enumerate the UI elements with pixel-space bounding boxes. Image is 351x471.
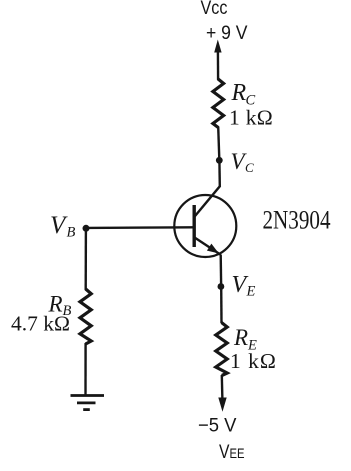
wire emitter to VE <box>219 255 222 291</box>
label RC <box>231 80 256 109</box>
wire VC to collector <box>218 160 221 187</box>
wire RE to -5V arrow <box>221 375 224 400</box>
transistor Q1 2N3904 <box>174 186 236 257</box>
svg-text:1 kΩ: 1 kΩ <box>230 349 277 373</box>
node VC <box>216 157 223 164</box>
node VE <box>218 283 225 290</box>
svg-text:R: R <box>233 325 248 350</box>
svg-text:2N3904: 2N3904 <box>263 205 331 235</box>
wire RB to ground <box>84 343 86 395</box>
svg-text:1 kΩ: 1 kΩ <box>229 106 273 130</box>
supply arrow to +9V <box>214 40 221 81</box>
label RE <box>233 325 257 354</box>
ground <box>71 396 105 410</box>
label VB <box>50 212 76 241</box>
resistor RE <box>216 323 227 376</box>
label VC <box>231 149 255 175</box>
svg-text:R: R <box>231 80 247 106</box>
svg-text:4.7 kΩ: 4.7 kΩ <box>11 312 70 336</box>
label RB <box>48 292 72 320</box>
svg-text:C: C <box>245 160 254 175</box>
supply arrow to -5V <box>218 398 226 412</box>
svg-text:B: B <box>67 225 76 241</box>
resistor RC <box>213 79 224 128</box>
svg-text:Vcc: Vcc <box>201 0 228 19</box>
svg-text:−5 V: −5 V <box>198 415 237 437</box>
wire VE to RE <box>220 286 223 323</box>
svg-text:+ 9 V: + 9 V <box>206 22 248 44</box>
wire base <box>86 226 194 229</box>
svg-text:E: E <box>246 284 256 300</box>
label VE <box>232 272 256 300</box>
resistor RB <box>80 289 91 344</box>
svg-text:VEE: VEE <box>219 441 245 463</box>
wire VB to RB <box>84 228 87 290</box>
node VB <box>83 225 90 232</box>
wire RC to VC <box>218 127 219 163</box>
